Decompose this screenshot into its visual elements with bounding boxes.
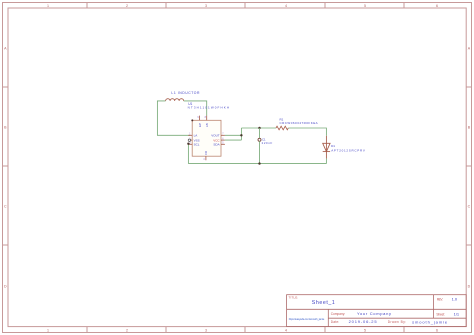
junction C1 bottom <box>258 162 260 164</box>
svg-text:2: 2 <box>126 328 128 332</box>
wire: VSS/SCL to ground rail <box>187 144 189 164</box>
svg-text:L1 INDUCTOR: L1 INDUCTOR <box>171 91 200 95</box>
frame row letters left <box>4 47 7 289</box>
wire: bottom ground rail <box>188 163 326 165</box>
svg-text:5: 5 <box>364 328 366 332</box>
svg-text:6: 6 <box>436 328 438 332</box>
svg-text:Date:: Date: <box>331 320 340 324</box>
title block divider row1 <box>287 308 467 310</box>
svg-text:2019-06-25: 2019-06-25 <box>349 319 378 324</box>
title block vertical divider right <box>432 295 434 319</box>
wire: C1 top <box>259 128 261 138</box>
svg-text:LA: LA <box>194 134 198 138</box>
svg-text:VOUT: VOUT <box>211 134 220 138</box>
svg-text:4: 4 <box>285 328 287 332</box>
wire: VCC to vertical <box>225 139 242 141</box>
svg-text:EP: EP <box>198 123 202 127</box>
svg-text:REV:: REV: <box>437 297 444 301</box>
wire: VOUT to vertical <box>225 134 242 136</box>
VSS bubble <box>188 139 190 141</box>
U1 pin LA stub <box>188 134 192 136</box>
U1 pin VOUT stub <box>221 134 225 136</box>
U1 origin dot <box>191 119 193 121</box>
wire: inductor right lead to LB pin <box>184 101 207 116</box>
wire: vertical riser <box>240 128 242 140</box>
svg-text:C: C <box>4 205 7 209</box>
svg-text:https://easyeda.com/smooth_jam: https://easyeda.com/smooth_jamie <box>289 317 325 321</box>
wire: top rail to R1 <box>241 127 276 129</box>
svg-text:1/1: 1/1 <box>454 311 460 316</box>
svg-text:Sheet:: Sheet: <box>436 312 445 316</box>
svg-text:APT2012SRCPRV: APT2012SRCPRV <box>331 149 365 153</box>
frame right ticks <box>466 87 471 245</box>
svg-text:C: C <box>468 205 471 209</box>
svg-text:1: 1 <box>47 328 49 332</box>
svg-text:2: 2 <box>126 4 128 8</box>
svg-text:220nF: 220nF <box>262 141 273 145</box>
svg-text:Drawn By:: Drawn By: <box>388 320 407 324</box>
IC U1 body <box>192 120 221 156</box>
wire: R1 to diode top <box>288 128 326 136</box>
wire: diode to ground rail <box>325 159 327 164</box>
svg-text:4: 4 <box>285 4 287 8</box>
title block outline <box>287 295 467 327</box>
svg-text:NT3H1101W0FHKH: NT3H1101W0FHKH <box>188 105 230 109</box>
frame row letters right <box>468 47 471 289</box>
svg-text:Your Company: Your Company <box>357 311 391 316</box>
inductor L1 <box>166 99 184 101</box>
svg-text:Sheet_1: Sheet_1 <box>312 300 335 306</box>
svg-text:smooth_jamie: smooth_jamie <box>412 320 448 325</box>
svg-text:CRCW060347R0FKEA: CRCW060347R0FKEA <box>280 121 318 125</box>
junction VOUT <box>240 134 242 136</box>
svg-text:LB: LB <box>205 123 209 127</box>
U1 pin FD stub <box>205 156 207 160</box>
wire: inductor left lead down <box>157 101 190 135</box>
svg-text:D: D <box>468 285 471 289</box>
svg-text:TITLE:: TITLE: <box>289 295 299 299</box>
U1 pin SDA stub <box>221 143 225 145</box>
frame column numbers top <box>47 4 438 8</box>
svg-text:5: 5 <box>364 4 366 8</box>
U1 pin LB stub <box>206 116 208 121</box>
capacitor C1 <box>258 138 261 141</box>
resistor R1 <box>276 126 288 130</box>
svg-text:Company:: Company: <box>331 312 346 316</box>
frame column numbers bottom <box>47 328 438 332</box>
junction C1 top <box>258 127 260 129</box>
svg-text:3: 3 <box>205 328 207 332</box>
U1 pin SCL stub <box>188 143 192 145</box>
svg-text:3: 3 <box>205 4 207 8</box>
U1 pin VSS stub <box>188 139 192 141</box>
junction SCL <box>187 143 189 145</box>
svg-text:1.0: 1.0 <box>452 297 458 302</box>
diode D1 <box>323 136 330 159</box>
frame top ticks <box>87 3 404 9</box>
frame bottom ticks <box>87 327 404 333</box>
svg-text:6: 6 <box>436 4 438 8</box>
frame left ticks <box>3 87 9 245</box>
U1 pin EP stub <box>199 116 201 121</box>
title block divider row2 <box>328 317 466 319</box>
svg-text:SCL: SCL <box>194 142 200 146</box>
svg-text:SDA: SDA <box>213 142 219 146</box>
svg-text:D1: D1 <box>331 144 335 148</box>
svg-text:1: 1 <box>47 4 49 8</box>
svg-text:D: D <box>4 285 7 289</box>
U1 pin VCC stub <box>221 139 225 141</box>
wire: C1 bottom <box>259 141 261 163</box>
title block vertical divider left <box>327 309 329 326</box>
